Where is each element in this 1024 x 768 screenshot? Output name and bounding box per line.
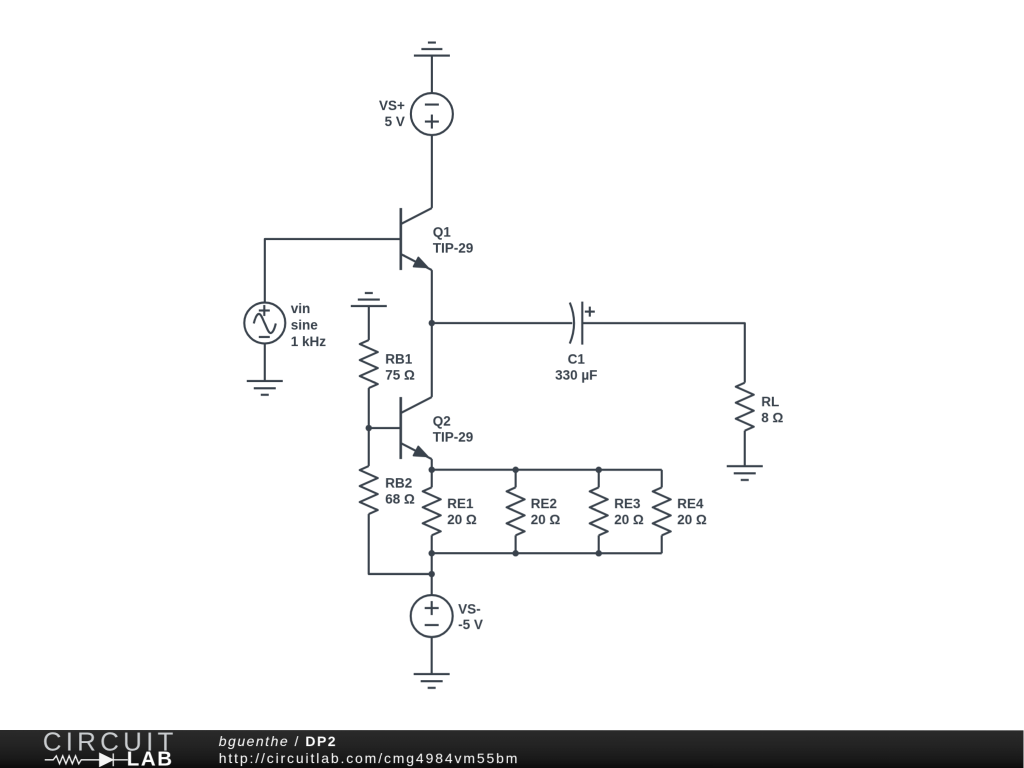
ground GND above RB1: [351, 293, 387, 340]
svg-text:RL: RL: [761, 394, 779, 409]
source vin sine 1 kHz: [244, 301, 326, 349]
node: RE2 top: [512, 467, 518, 473]
svg-text:RE2: RE2: [531, 496, 557, 511]
wire vin to ground: [264, 343, 266, 381]
ground GND below vin: [247, 381, 283, 395]
wire Q1 base: [265, 239, 401, 303]
transistor Q1 TIP-29: [401, 208, 474, 270]
transistor Q2 TIP-29: [401, 397, 474, 459]
svg-text:RB2: RB2: [385, 476, 412, 491]
svg-text:RE4: RE4: [677, 496, 704, 511]
svg-text:330 µF: 330 µF: [555, 368, 597, 383]
resistor RL 8 Ohm: [736, 383, 784, 467]
node: RE3 bottom: [596, 550, 602, 556]
svg-text:Q2: Q2: [433, 414, 451, 429]
voltage source VS+ 5 V: [379, 93, 453, 135]
wire C1 to RL: [582, 323, 745, 383]
wire VS- to ground: [431, 637, 433, 674]
node: output junction: [429, 320, 435, 326]
ground GND bottom: [414, 674, 450, 688]
wire VS+ to Q1 collector: [431, 135, 433, 208]
node: RE3 top: [596, 467, 602, 473]
svg-text:20 Ω: 20 Ω: [677, 512, 707, 527]
footer text: url: [219, 750, 520, 766]
svg-text:LAB: LAB: [127, 748, 174, 768]
ground GND top (above VS+): [414, 43, 450, 94]
svg-text:20 Ω: 20 Ω: [614, 512, 644, 527]
node: Q2 base junction: [366, 425, 372, 431]
svg-text:-5 V: -5 V: [458, 617, 483, 632]
svg-text:5 V: 5 V: [385, 114, 405, 129]
svg-text:8 Ω: 8 Ω: [761, 410, 783, 425]
svg-text:RE3: RE3: [614, 496, 641, 511]
voltage source VS- -5 V: [411, 595, 483, 637]
svg-text:C1: C1: [568, 352, 586, 367]
wire node to VS-: [431, 574, 433, 595]
node: VS- junction: [428, 571, 434, 577]
wire Q1 emitter to output node: [431, 270, 433, 323]
svg-text:68 Ω: 68 Ω: [385, 492, 415, 507]
resistor RB1 75 Ohm: [360, 340, 415, 428]
footer bar: [0, 730, 1024, 768]
svg-text:20 Ω: 20 Ω: [447, 512, 477, 527]
footer text: author/title: [219, 733, 337, 749]
wire rail down to VS- node: [431, 553, 433, 574]
node: RE1 bottom: [429, 550, 435, 556]
svg-text:75 Ω: 75 Ω: [385, 368, 415, 383]
resistor RE3 20 Ohm: [590, 470, 644, 554]
wire top rail: [432, 469, 662, 471]
svg-text:sine: sine: [291, 318, 319, 333]
svg-text:TIP-29: TIP-29: [433, 241, 474, 256]
svg-text:vin: vin: [291, 301, 311, 316]
ground GND below RL: [727, 466, 763, 480]
svg-text:RB1: RB1: [385, 352, 413, 367]
wire output node to C1: [432, 322, 573, 324]
svg-text:TIP-29: TIP-29: [433, 430, 474, 445]
svg-text:RE1: RE1: [447, 496, 474, 511]
wire Q2 collector to output node: [431, 323, 433, 397]
svg-text:20 Ω: 20 Ω: [531, 512, 561, 527]
wire RB2 bottom to VS- node: [369, 573, 432, 575]
wire Q2 base: [369, 427, 401, 429]
svg-text:VS-: VS-: [458, 602, 481, 617]
resistor RE1 20 Ohm: [423, 470, 477, 554]
svg-text:1 kHz: 1 kHz: [291, 334, 327, 349]
node: emitter rail junction: [429, 467, 435, 473]
CircuitLab logo: [0, 730, 220, 768]
resistor RB2 68 Ohm: [360, 428, 432, 574]
node: RE2 bottom: [512, 550, 518, 556]
svg-text:VS+: VS+: [379, 98, 405, 113]
resistor RE4 20 Ohm: [653, 470, 707, 554]
capacitor C1 330 uF: [555, 302, 597, 383]
resistor RE2 20 Ohm: [507, 470, 561, 554]
wire Q2 emitter to rail: [431, 459, 433, 470]
svg-text:Q1: Q1: [433, 225, 452, 240]
wire bottom rail: [432, 552, 662, 554]
